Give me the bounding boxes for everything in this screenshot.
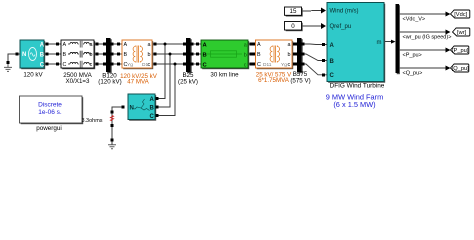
svg-text:1e-06 s.: 1e-06 s. bbox=[38, 109, 62, 116]
svg-text:Qref_pu: Qref_pu bbox=[330, 24, 352, 30]
svg-text:<wr_pu (IG speed)>: <wr_pu (IG speed)> bbox=[403, 35, 452, 41]
svg-text:[Q_pu]: [Q_pu] bbox=[452, 66, 469, 72]
svg-text:D11: D11 bbox=[263, 62, 272, 68]
svg-text:b: b bbox=[90, 52, 93, 58]
svg-text:Yg: Yg bbox=[281, 62, 287, 68]
svg-text:powergui: powergui bbox=[36, 125, 62, 132]
svg-text:b: b bbox=[288, 52, 291, 58]
svg-text:B: B bbox=[150, 106, 155, 112]
svg-text:(120 kV): (120 kV) bbox=[98, 78, 121, 85]
svg-text:B: B bbox=[257, 52, 261, 58]
svg-text:(575 V): (575 V) bbox=[290, 78, 310, 85]
svg-text:0: 0 bbox=[291, 23, 295, 30]
svg-text:C: C bbox=[40, 62, 45, 68]
svg-text:30 km line: 30 km line bbox=[210, 72, 239, 79]
svg-text:15: 15 bbox=[290, 8, 297, 15]
svg-text:(6 x 1.5 MW): (6 x 1.5 MW) bbox=[333, 100, 375, 109]
svg-text:A: A bbox=[330, 43, 335, 49]
svg-text:C: C bbox=[257, 62, 261, 68]
svg-text:Discrete: Discrete bbox=[38, 102, 62, 109]
svg-text:3.3ohms: 3.3ohms bbox=[81, 118, 102, 124]
svg-text:A: A bbox=[63, 42, 67, 48]
svg-text:a: a bbox=[244, 42, 247, 48]
svg-text:B: B bbox=[124, 52, 128, 58]
svg-text:c: c bbox=[244, 62, 247, 68]
svg-text:D1: D1 bbox=[142, 62, 148, 68]
svg-text:N: N bbox=[22, 52, 26, 58]
svg-text:DFIG Wind Turbine: DFIG Wind Turbine bbox=[330, 83, 385, 90]
svg-text:Yg: Yg bbox=[127, 62, 133, 68]
svg-text:B: B bbox=[330, 59, 335, 65]
svg-text:a: a bbox=[288, 42, 291, 48]
svg-text:A: A bbox=[124, 42, 128, 48]
svg-text:B: B bbox=[63, 52, 67, 58]
svg-text:X0/X1=3: X0/X1=3 bbox=[66, 78, 90, 85]
svg-text:a: a bbox=[148, 42, 151, 48]
svg-text:[wr]: [wr] bbox=[457, 30, 467, 36]
svg-text:[P_pu]: [P_pu] bbox=[452, 48, 469, 54]
svg-text:C: C bbox=[330, 73, 335, 79]
svg-text:<P_pu>: <P_pu> bbox=[403, 53, 422, 59]
svg-text:b: b bbox=[244, 52, 247, 58]
svg-text:A: A bbox=[150, 97, 155, 103]
svg-text:47 MVA: 47 MVA bbox=[127, 79, 149, 86]
svg-text:b: b bbox=[148, 52, 151, 58]
svg-text:B: B bbox=[203, 52, 207, 58]
svg-text:6*1.75MVA: 6*1.75MVA bbox=[258, 77, 290, 84]
svg-text:Wind (m/s): Wind (m/s) bbox=[330, 9, 359, 15]
svg-text:B: B bbox=[40, 52, 45, 58]
svg-text:A: A bbox=[257, 42, 261, 48]
svg-text:c: c bbox=[90, 62, 93, 68]
svg-text:a: a bbox=[90, 42, 93, 48]
svg-text:A: A bbox=[40, 42, 45, 48]
svg-text:(25 kV): (25 kV) bbox=[178, 78, 198, 85]
svg-text:[Vdc]: [Vdc] bbox=[454, 12, 467, 18]
svg-text:120 kV: 120 kV bbox=[23, 72, 43, 79]
svg-text:m: m bbox=[377, 40, 382, 46]
svg-text:C: C bbox=[63, 62, 67, 68]
svg-text:<Vdc_V>: <Vdc_V> bbox=[403, 17, 426, 23]
svg-text:c: c bbox=[288, 62, 291, 68]
svg-text:C: C bbox=[150, 114, 155, 120]
svg-text:<Q_pu>: <Q_pu> bbox=[403, 71, 423, 77]
